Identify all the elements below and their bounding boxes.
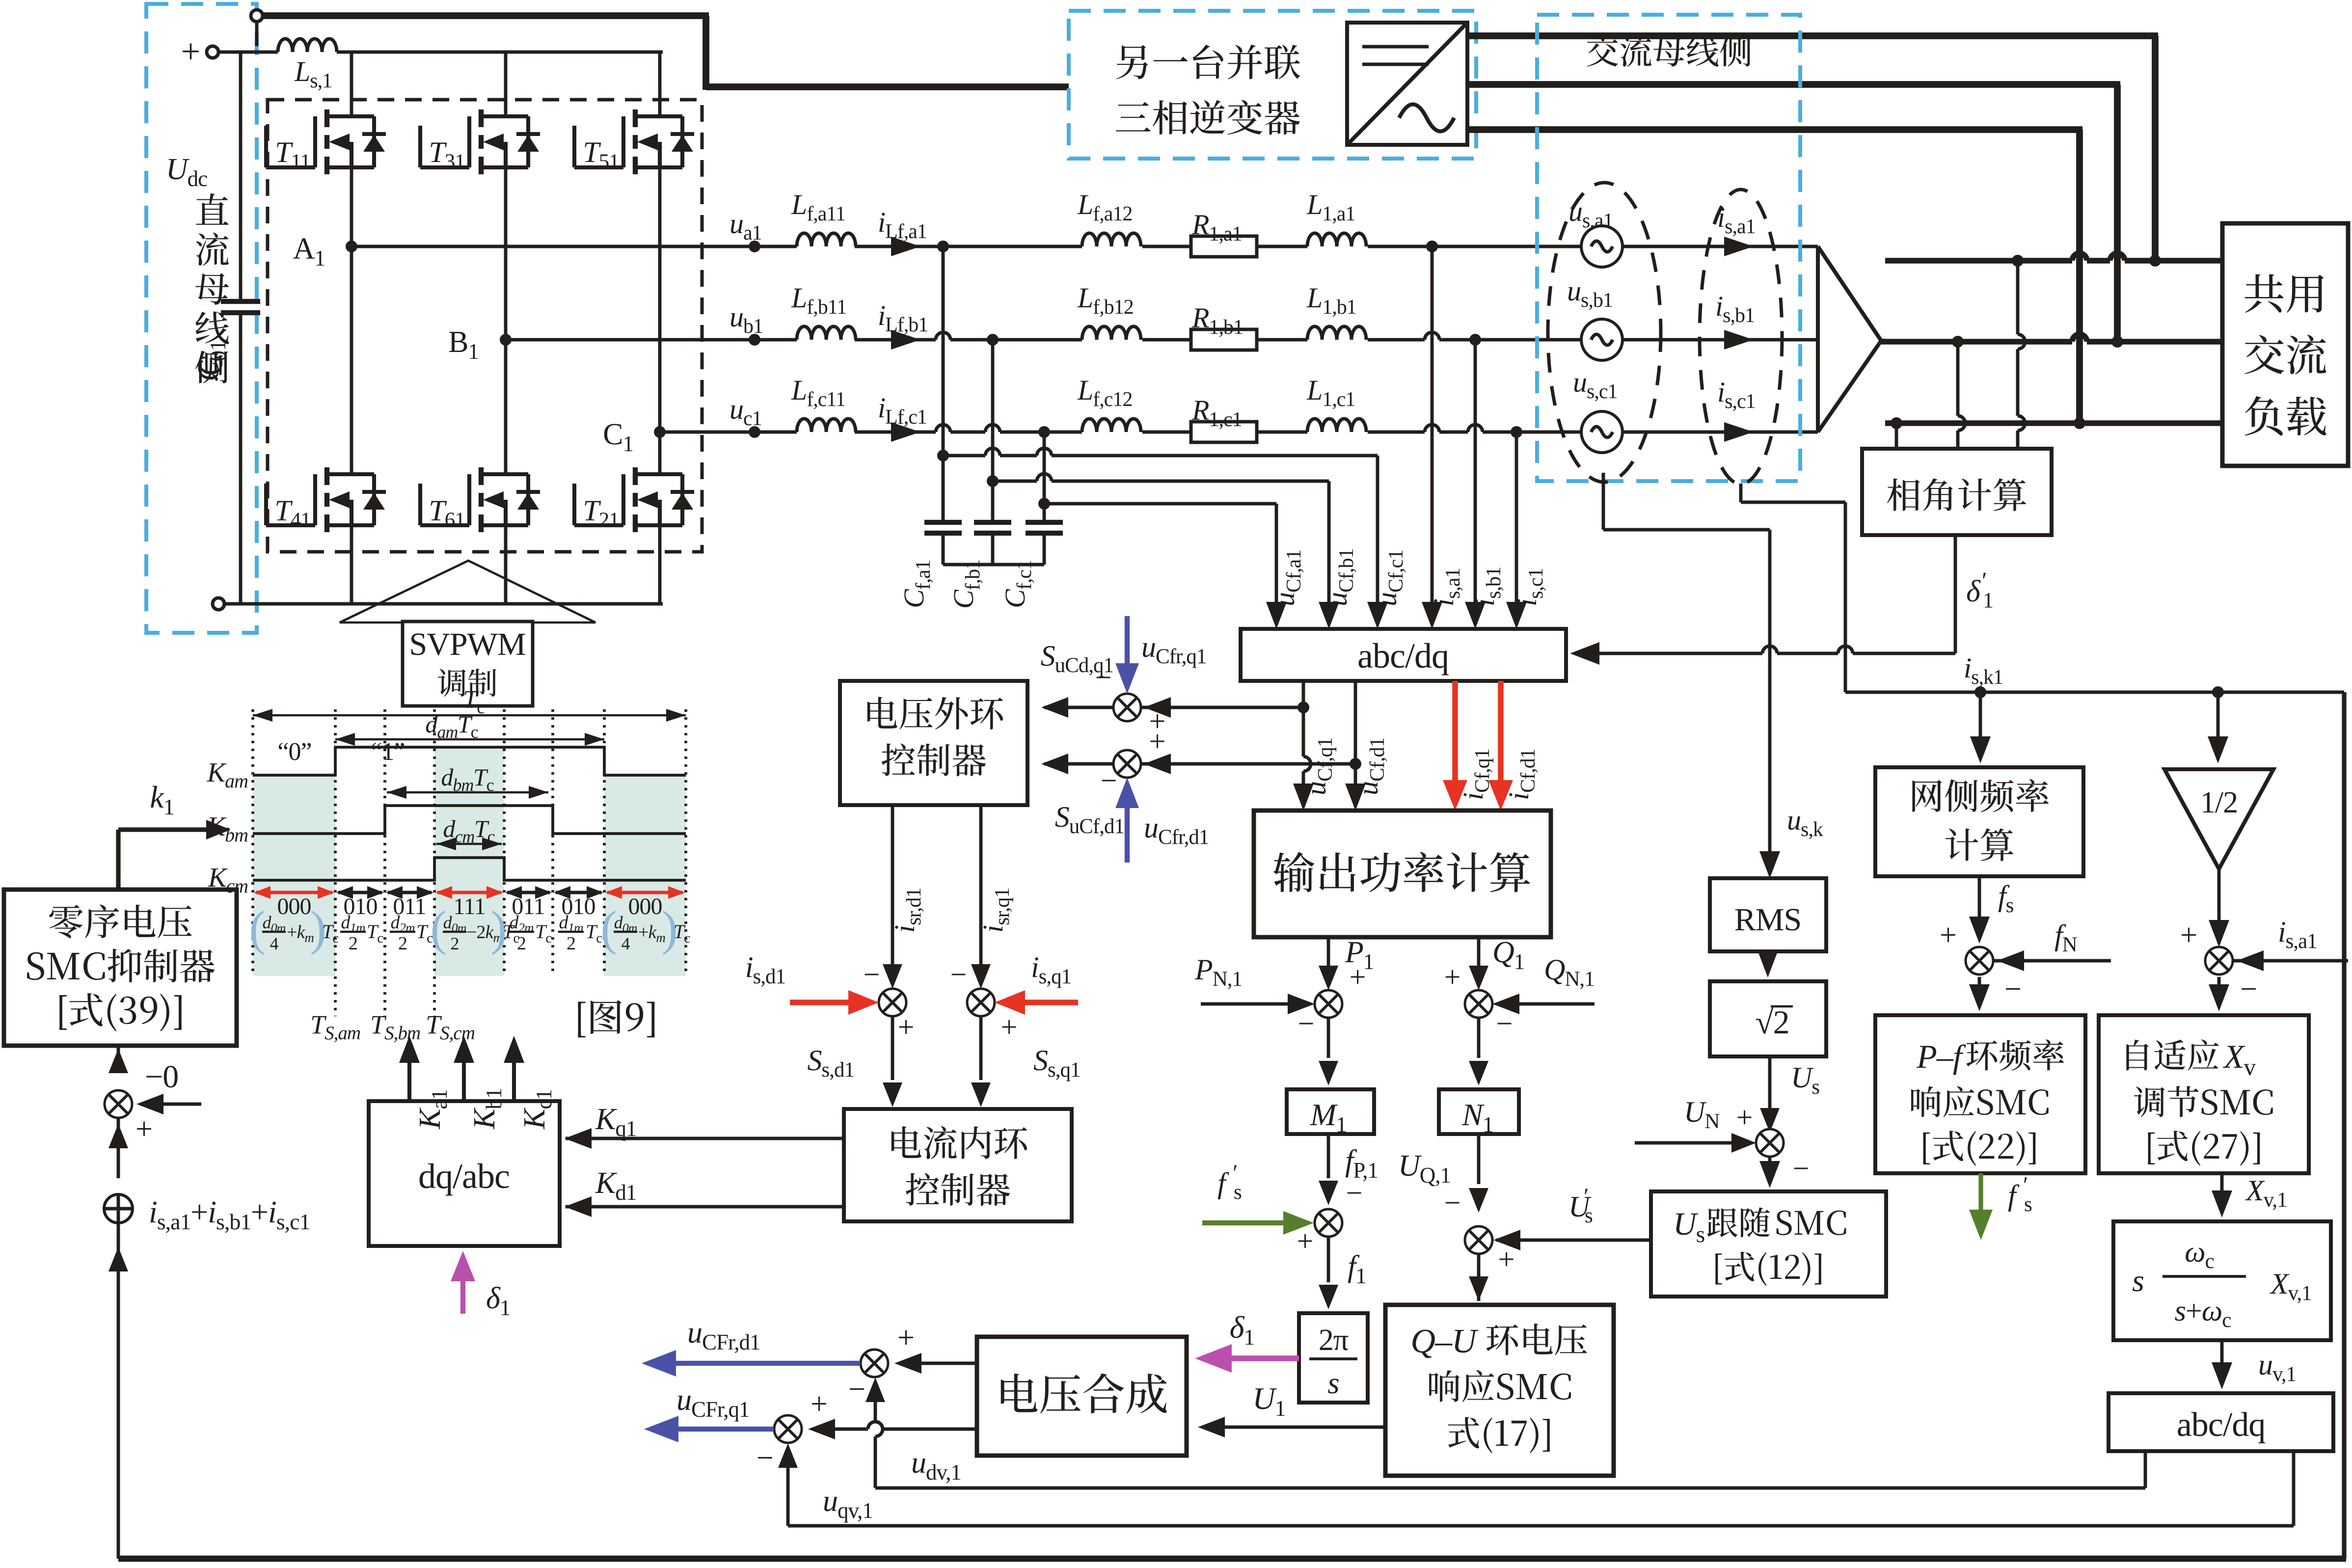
- svg-text:−: −: [2240, 973, 2257, 1006]
- svg-text:+: +: [898, 1011, 914, 1043]
- svg-text:P–f: P–f: [1916, 1038, 1966, 1075]
- svg-text:−: −: [2004, 973, 2021, 1006]
- svg-text:+: +: [181, 33, 200, 71]
- svg-text:−: −: [1095, 661, 1111, 694]
- svg-text:√2: √2: [1755, 1003, 1789, 1041]
- svg-text:−: −: [864, 958, 880, 991]
- svg-text:+: +: [811, 1387, 827, 1421]
- svg-text:s: s: [2024, 1193, 2032, 1216]
- svg-text:dq/abc: dq/abc: [418, 1157, 510, 1196]
- svg-text:−: −: [950, 958, 967, 991]
- svg-text:Q–U: Q–U: [1410, 1323, 1479, 1360]
- svg-text:2: 2: [517, 933, 526, 954]
- svg-text:“1”: “1”: [371, 738, 405, 766]
- svg-text:s: s: [2132, 1263, 2144, 1298]
- svg-text:−: −: [1793, 1152, 1809, 1185]
- svg-text:s: s: [1585, 1204, 1593, 1227]
- svg-text:abc/dq: abc/dq: [2177, 1406, 2266, 1444]
- svg-text:+: +: [1498, 1243, 1514, 1275]
- svg-text:2π: 2π: [1319, 1324, 1349, 1357]
- svg-text:−: −: [1298, 1007, 1314, 1040]
- svg-text:SVPWM: SVPWM: [409, 626, 525, 662]
- svg-text:+: +: [1350, 961, 1366, 993]
- svg-text:2: 2: [349, 933, 357, 954]
- svg-text:−: −: [1101, 764, 1117, 797]
- svg-text:−: −: [848, 1373, 865, 1406]
- svg-text:RMS: RMS: [1734, 902, 1801, 938]
- svg-text:+: +: [2180, 919, 2197, 952]
- svg-text:1/2: 1/2: [2200, 786, 2238, 819]
- svg-text:1: 1: [1983, 588, 1993, 612]
- svg-text:+: +: [1001, 1011, 1017, 1043]
- svg-text:+: +: [1297, 1225, 1313, 1257]
- svg-text:4: 4: [622, 934, 630, 953]
- svg-text:2: 2: [567, 933, 575, 954]
- svg-text:s: s: [1327, 1367, 1339, 1400]
- svg-text:+: +: [1444, 961, 1460, 993]
- svg-text:+: +: [1149, 725, 1165, 757]
- svg-text:−: −: [757, 1441, 773, 1475]
- svg-text:2: 2: [398, 933, 407, 954]
- svg-text:+: +: [897, 1321, 914, 1354]
- svg-text:−0: −0: [145, 1059, 178, 1095]
- svg-text:s: s: [1234, 1181, 1242, 1204]
- svg-text:−: −: [1346, 1177, 1362, 1209]
- svg-text:+: +: [1736, 1101, 1753, 1134]
- svg-text:abc/dq: abc/dq: [1357, 636, 1449, 676]
- svg-text:4: 4: [270, 934, 279, 953]
- svg-text:−: −: [1496, 1007, 1513, 1040]
- svg-text:000: 000: [277, 893, 311, 919]
- svg-text:000: 000: [628, 893, 662, 919]
- svg-text:δ: δ: [1966, 575, 1981, 608]
- svg-text:“0”: “0”: [277, 738, 311, 766]
- svg-text:2: 2: [451, 934, 459, 953]
- svg-text:+: +: [1940, 919, 1956, 952]
- svg-text:−: −: [1444, 1187, 1460, 1219]
- svg-text:111: 111: [453, 893, 485, 919]
- svg-text:+: +: [135, 1112, 152, 1146]
